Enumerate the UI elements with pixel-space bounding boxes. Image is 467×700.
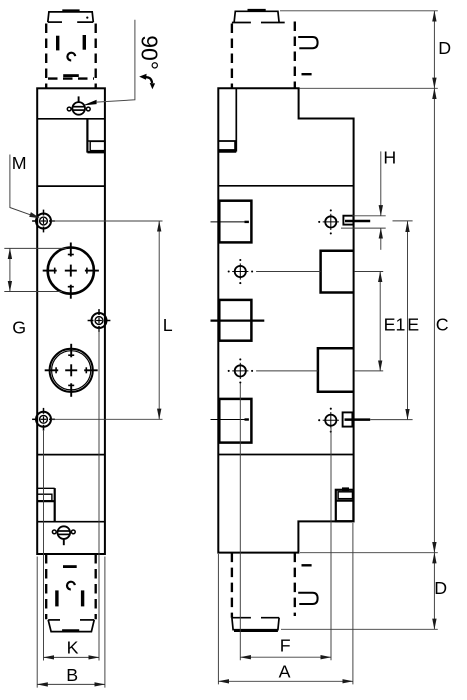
section divider line y=185.8 <box>218 185 353 187</box>
B extension line right <box>104 557 106 688</box>
bottom connector center pin arc <box>67 582 75 590</box>
pilot port tab top <box>343 216 370 225</box>
bottom clip upper dash <box>302 564 312 566</box>
svg-text:C: C <box>436 315 449 335</box>
port circle 1 (upper) <box>43 243 99 299</box>
left side latch (bottom section) <box>37 488 55 522</box>
E extension line top <box>393 220 413 222</box>
port circle 2 (lower, double ring) <box>45 344 98 397</box>
side port box 2 <box>219 300 251 341</box>
solenoid interface column line <box>235 88 237 151</box>
svg-text:E: E <box>407 315 419 335</box>
port 1 centerline with tick <box>211 221 249 223</box>
top connector dashed outline (side view) <box>232 22 295 89</box>
right side mounting tab (top) <box>87 120 105 153</box>
mounting screw hole top-left <box>32 210 55 233</box>
bottom connector cap <box>48 620 94 632</box>
bottom connector dashed outline <box>46 554 95 619</box>
svg-text:G: G <box>12 318 26 338</box>
top connector cap (solid trapezoid) <box>48 11 94 22</box>
K dimension line <box>44 656 72 658</box>
top connector cap (side view) <box>232 10 285 22</box>
valve body outline (front view) <box>37 88 105 554</box>
bottom connector pin bar right <box>81 590 84 606</box>
E1 dimension line <box>379 272 381 321</box>
section divider line y=186.1 <box>37 185 105 187</box>
E extension line bottom <box>370 419 412 421</box>
svg-text:M: M <box>12 153 27 173</box>
section divider line y=454.5 <box>218 454 353 456</box>
G dimension line <box>9 248 11 270</box>
K extension line right <box>98 329 100 661</box>
F extension line left <box>239 384 241 661</box>
svg-text:K: K <box>67 638 79 658</box>
L extension line top <box>52 220 163 222</box>
90deg leader arrow (filled) <box>83 100 97 106</box>
right latch box (side view) <box>336 487 354 521</box>
svg-text:B: B <box>66 665 78 685</box>
port 2 centerline (thick, through) <box>211 320 265 322</box>
mounting screw hole right-middle <box>88 309 111 332</box>
top clip lower dash <box>302 73 312 75</box>
side port box 1 <box>219 201 251 243</box>
svg-text:E1: E1 <box>384 315 406 335</box>
H dimension line upper (arrow outside) <box>380 151 382 215</box>
90deg leader line <box>96 20 135 102</box>
top connector retaining clip <box>298 37 317 48</box>
S2 leader to E1 <box>256 370 383 372</box>
connector pin bar right <box>83 35 86 50</box>
connector pin bar left <box>56 36 59 51</box>
screw crosshair S1 (left upper) <box>228 259 254 284</box>
section divider line y=118.8 <box>37 118 105 120</box>
bottom connector cap (side view) <box>232 618 279 631</box>
svg-text:D: D <box>438 38 451 58</box>
D bottom dimension line <box>433 553 435 590</box>
S1 leader to E1 <box>256 271 383 273</box>
pilot port tab bottom <box>343 412 371 426</box>
D top extension line (cap top) <box>280 10 438 12</box>
A extension line left <box>217 554 219 684</box>
svg-text:H: H <box>383 147 396 167</box>
bottom connector keying bar <box>63 565 77 568</box>
mounting screw hole bottom-left <box>32 408 55 431</box>
svg-text:L: L <box>163 315 173 335</box>
F dimension line <box>240 656 285 658</box>
pilot screw crosshair S3 (right upper) <box>318 209 339 234</box>
screw crosshair S2 (left lower) <box>228 358 254 383</box>
port 3 centerline with tick <box>211 419 249 421</box>
B dimension line <box>37 683 71 685</box>
bottom connector dashed outline (side view) <box>232 553 295 618</box>
pilot screw crosshair S4 (right lower) <box>318 408 339 433</box>
valve body outline (side view) <box>218 88 353 552</box>
C/D extension line (body bottom) <box>300 552 438 554</box>
bottom connector retaining clip <box>298 593 317 604</box>
connector center pin arc <box>67 53 75 61</box>
K extension line left <box>43 431 45 661</box>
G extension line bottom <box>4 291 62 293</box>
H extension line bottom <box>341 227 386 229</box>
G extension line top <box>4 247 66 249</box>
A dimension line <box>218 680 285 682</box>
C dimension line <box>433 88 435 320</box>
B extension line left <box>36 557 38 688</box>
C/D extension line (body top) <box>300 87 438 89</box>
E dimension line <box>407 221 409 320</box>
left latch (side view) <box>218 141 236 152</box>
svg-text:90°: 90° <box>136 35 162 70</box>
svg-text:F: F <box>280 636 291 656</box>
L dimension line <box>158 221 160 320</box>
svg-text:A: A <box>279 662 291 682</box>
bottom connector pin bar left <box>55 590 58 606</box>
H extension line top <box>352 215 386 217</box>
L extension line bottom <box>52 418 163 420</box>
manual override screw (top section) <box>67 96 90 114</box>
rotation arc arrow <box>139 74 155 90</box>
right port box B <box>318 348 354 392</box>
M leader line with arrow <box>10 155 34 216</box>
right port box A <box>321 251 354 293</box>
section divider line y=521.7 <box>37 521 105 523</box>
A extension line right <box>352 523 354 684</box>
side port box 3 <box>219 399 251 443</box>
bottom adjustment screw <box>52 526 75 545</box>
connector keying bar <box>63 74 79 77</box>
H dimension line lower (arrow outside) <box>380 228 382 250</box>
svg-text:D: D <box>434 578 447 598</box>
section divider line y=454.6 <box>37 454 105 456</box>
top connector dashed outline <box>46 24 95 89</box>
F extension line right <box>330 427 332 660</box>
D top dimension line <box>433 11 435 49</box>
D bottom extension line (cap bottom) <box>281 628 438 630</box>
